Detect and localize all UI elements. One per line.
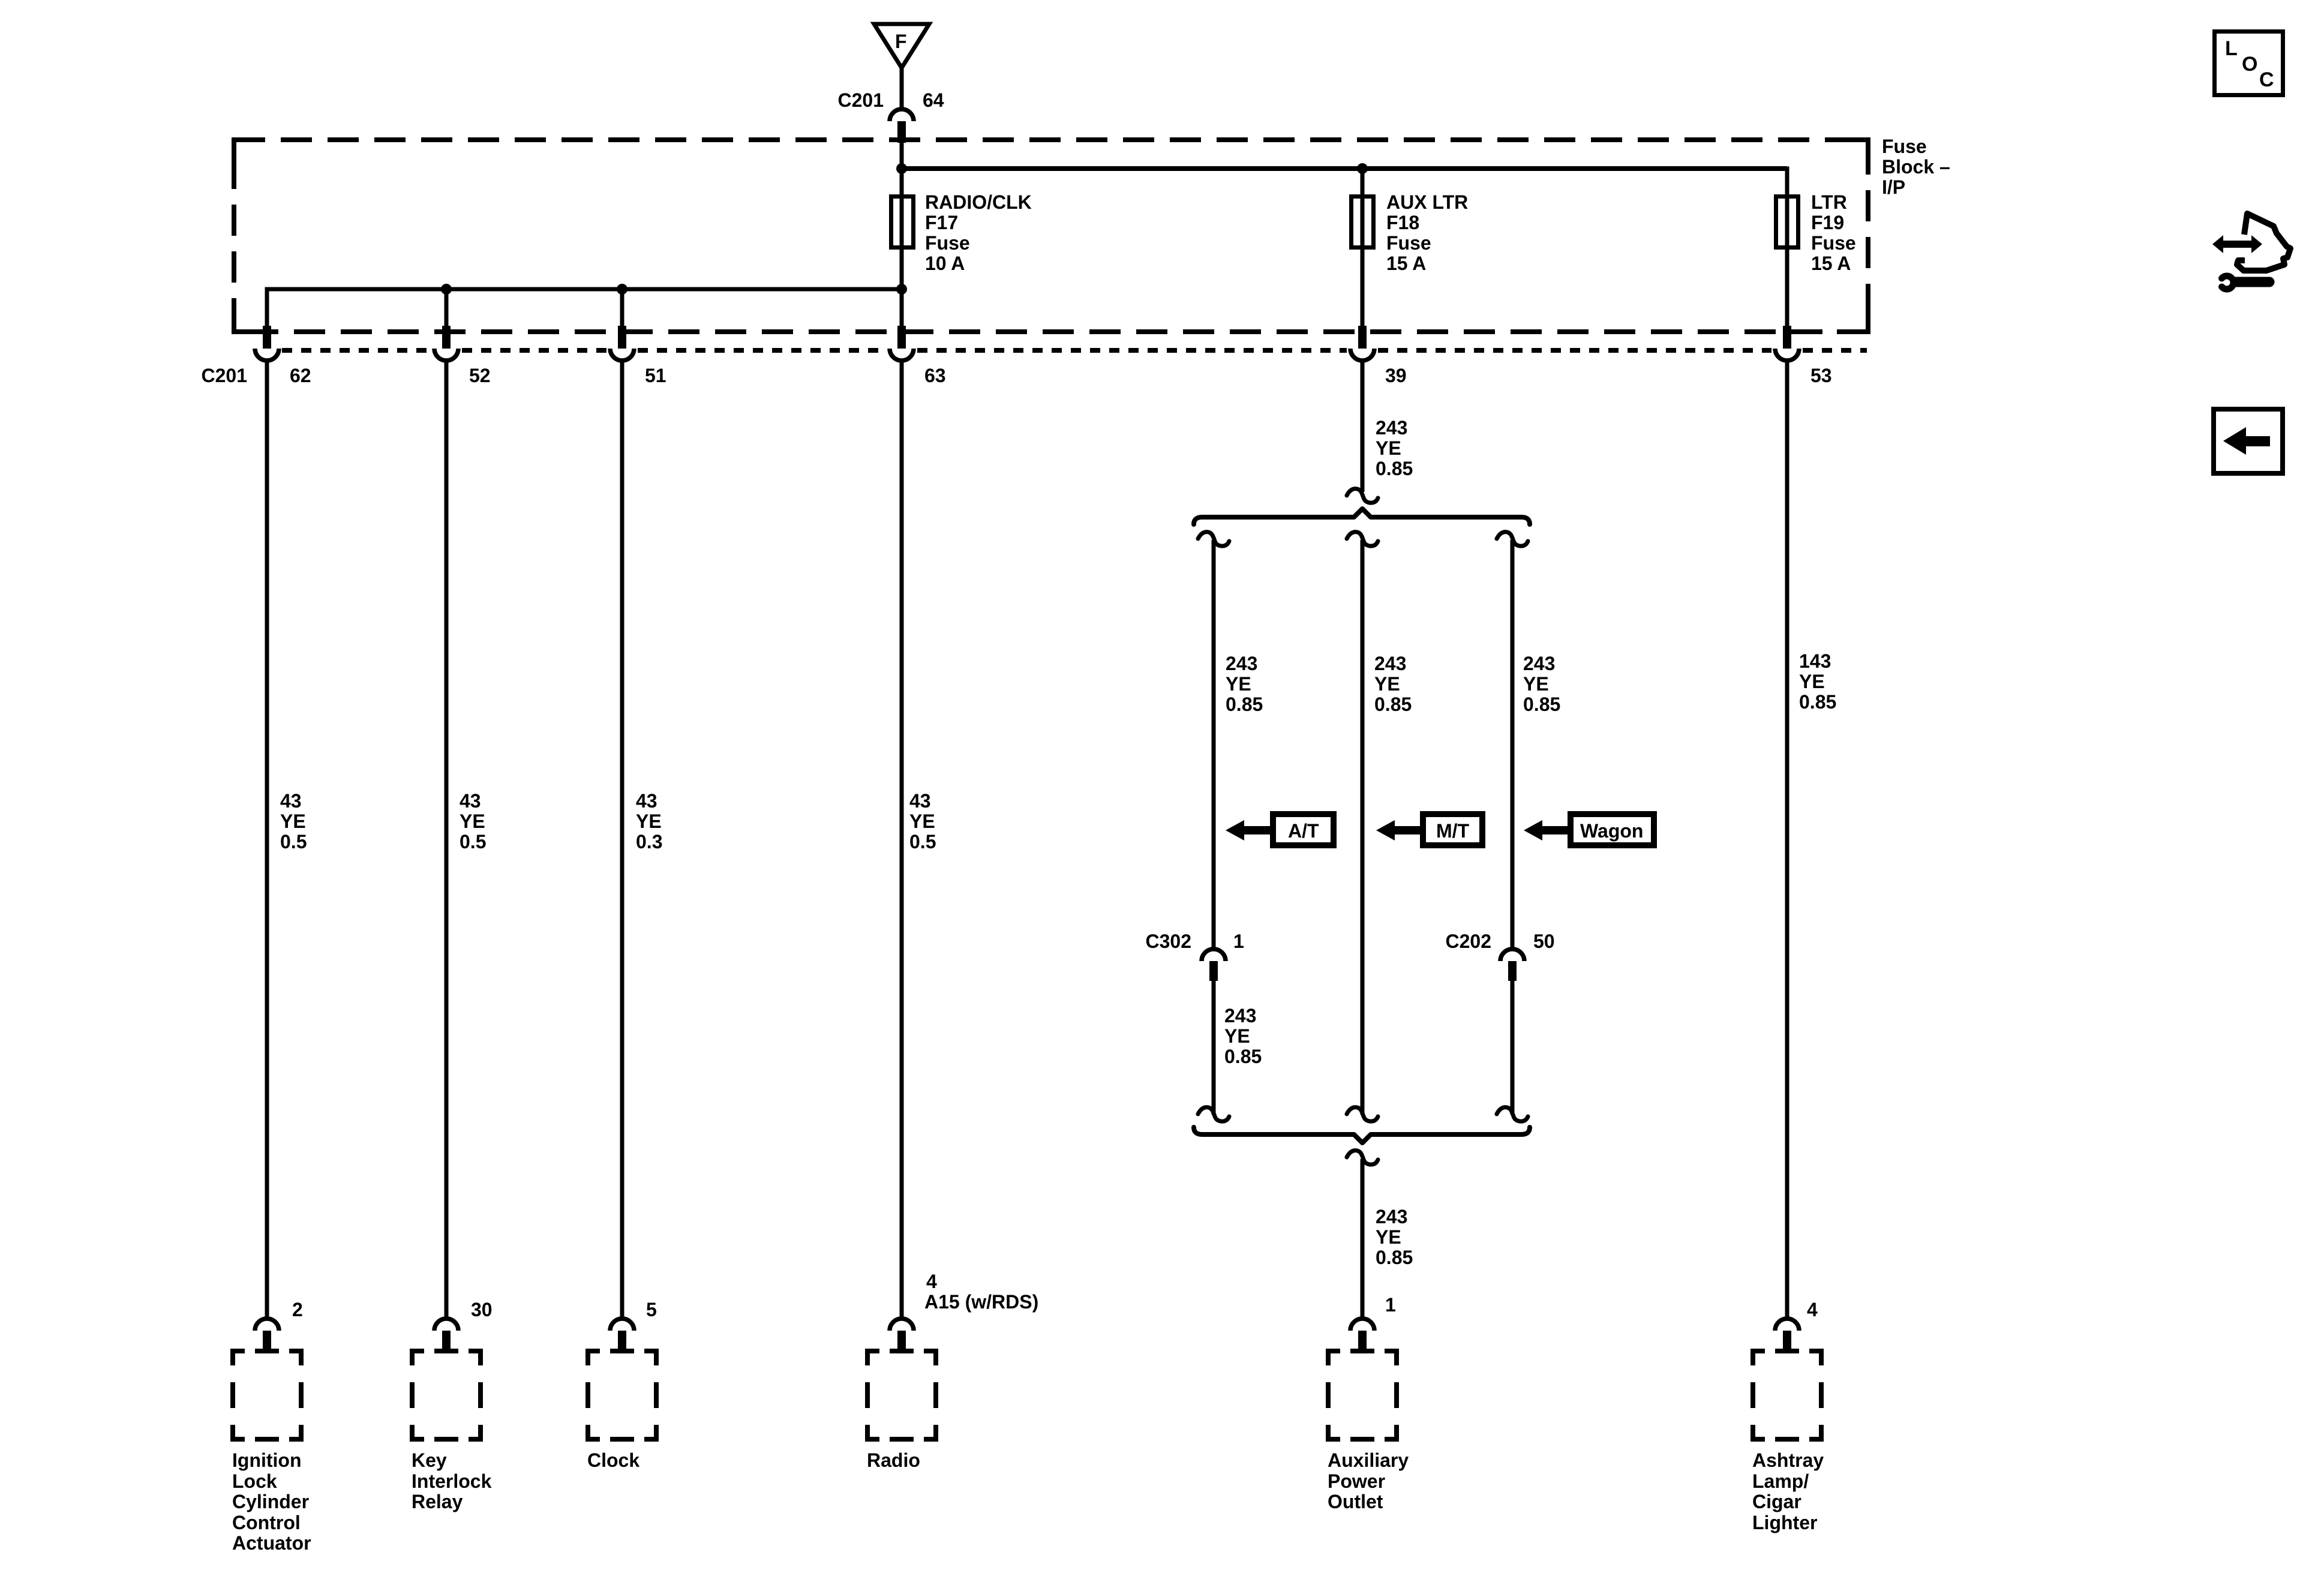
connector pin 4 radio (dome and pin) [890, 1319, 914, 1351]
svg-text:F18: F18 [1386, 212, 1419, 233]
svg-text:62: 62 [290, 365, 311, 386]
svg-text:Cylinder: Cylinder [232, 1491, 309, 1512]
svg-text:15 A: 15 A [1386, 253, 1426, 274]
svg-text:4: 4 [926, 1271, 937, 1292]
svg-text:243: 243 [1376, 417, 1407, 439]
wire break at bottom of M/T branch [1347, 1107, 1378, 1122]
connector pin 1 aux (dome and pin) [1350, 1319, 1374, 1351]
svg-text:Lock: Lock [232, 1470, 277, 1492]
svg-text:43: 43 [909, 790, 931, 812]
svg-text:Ignition: Ignition [232, 1449, 302, 1471]
svg-text:10 A: 10 A [925, 253, 965, 274]
wire: F symbol down to connector C201 pin 64 [900, 66, 904, 109]
svg-text:YE: YE [1799, 671, 1825, 692]
component box: auxiliary power outlet [1326, 1349, 1399, 1442]
connector C201 pin 62 (pin and cup) [255, 326, 279, 361]
wire 243 YE 0.85: C302 down to lower brace [1212, 980, 1216, 1115]
svg-text:Clock: Clock [587, 1449, 639, 1471]
svg-text:Radio: Radio [867, 1449, 920, 1471]
svg-text:YE: YE [280, 810, 306, 832]
connector pin 4 ashtray (dome and pin) [1775, 1319, 1799, 1351]
svg-text:1: 1 [1233, 930, 1244, 952]
wire 43 YE 0.5: pin 52 to key interlock relay [445, 362, 449, 1317]
svg-text:O: O [2242, 53, 2257, 76]
svg-text:0.5: 0.5 [909, 831, 936, 852]
wire 43 YE 0.5: pin 62 to ignition lock actuator [265, 362, 269, 1317]
svg-text:63: 63 [924, 365, 946, 386]
connector C201 pin 53 (pin and cup) [1775, 326, 1799, 361]
junction node at F18 branch [1357, 163, 1368, 174]
svg-text:I/P: I/P [1882, 176, 1905, 198]
svg-text:243: 243 [1523, 653, 1555, 674]
wire: bus corner down to fuse F19 [1785, 169, 1787, 252]
M/T option arrow and tag [1376, 814, 1482, 845]
Wagon option arrow and tag [1524, 814, 1654, 845]
wire break above upper brace [1347, 489, 1378, 503]
svg-text:Lighter: Lighter [1752, 1512, 1817, 1533]
svg-text:F19: F19 [1811, 212, 1844, 233]
wire: pin 64 down to fuse F17 [900, 142, 904, 196]
svg-text:F: F [895, 31, 907, 52]
wire break at bottom of Wagon branch [1497, 1107, 1528, 1122]
wire break at top of A/T branch [1198, 532, 1229, 547]
component box: clock [585, 1349, 659, 1442]
svg-text:Relay: Relay [412, 1491, 463, 1512]
fuse F19 LTR 15 A [1776, 191, 1856, 274]
junction node at pin 51 drop [617, 284, 627, 295]
svg-text:YE: YE [1376, 1226, 1401, 1248]
wire: bus down to fuse F18 [1361, 169, 1365, 252]
component box: radio [865, 1349, 938, 1442]
svg-text:5: 5 [646, 1299, 657, 1320]
svg-text:YE: YE [909, 810, 935, 832]
component box: key interlock relay [410, 1349, 483, 1442]
connector C201 pin 51 (pin and cup) [610, 326, 634, 361]
svg-text:C: C [2259, 68, 2274, 91]
junction node at F17 / bus [896, 163, 907, 174]
wire 243 YE 0.85: pin 39 down to break [1361, 362, 1365, 492]
svg-text:43: 43 [636, 790, 657, 812]
svg-text:52: 52 [469, 365, 491, 386]
wire: Wagon branch down to C202 [1511, 540, 1515, 948]
svg-text:Control: Control [232, 1512, 301, 1533]
svg-text:Outlet: Outlet [1328, 1491, 1383, 1512]
svg-text:YE: YE [1374, 673, 1400, 695]
svg-text:Ashtray: Ashtray [1752, 1449, 1824, 1471]
svg-text:0.85: 0.85 [1376, 458, 1413, 479]
wire: C202 down to lower brace [1511, 980, 1515, 1115]
icon LOC (component location box) [2215, 32, 2283, 95]
svg-text:0.85: 0.85 [1523, 694, 1560, 715]
left bus wire (to pins 62 52 51) [267, 289, 902, 330]
svg-text:51: 51 [645, 365, 666, 386]
svg-text:Fuse: Fuse [1882, 136, 1927, 157]
svg-text:F17: F17 [925, 212, 958, 233]
connector C201 pin 39 (pin and cup) [1350, 326, 1374, 361]
svg-text:Actuator: Actuator [232, 1532, 311, 1554]
connector C302 pin 1 (dome and pin) [1202, 949, 1226, 981]
connector C201 pin 64 (dome and pin) [890, 109, 914, 143]
svg-text:Wagon: Wagon [1580, 820, 1643, 842]
svg-text:4: 4 [1807, 1299, 1818, 1320]
wire 43 YE 0.5: pin 63 to radio [900, 362, 904, 1317]
svg-text:A15 (w/RDS): A15 (w/RDS) [924, 1291, 1038, 1313]
icon adjust (double arrow, outline, wrench) [2212, 214, 2290, 289]
junction node at F17 bottom / pin 63 [896, 284, 907, 295]
wire: left bus down to pin 51 [620, 289, 624, 330]
svg-text:M/T: M/T [1436, 820, 1470, 842]
svg-text:0.85: 0.85 [1376, 1247, 1413, 1268]
svg-text:0.85: 0.85 [1224, 1046, 1262, 1067]
svg-text:LTR: LTR [1811, 191, 1847, 213]
svg-text:Block –: Block – [1882, 156, 1950, 178]
wire: F18 down to pin 39 [1361, 248, 1365, 330]
svg-text:50: 50 [1533, 930, 1555, 952]
brace upper (splice spread) [1194, 509, 1530, 524]
fuse block I/P dashed border [234, 140, 1868, 332]
wire 143 YE 0.85: pin 53 to ashtray lamp [1785, 362, 1789, 1317]
svg-text:Cigar: Cigar [1752, 1491, 1801, 1512]
svg-text:64: 64 [923, 89, 944, 111]
wire: left bus down to pin 52 [445, 289, 449, 330]
svg-text:15 A: 15 A [1811, 253, 1851, 274]
junction node at pin 52 drop [441, 284, 452, 295]
svg-text:30: 30 [471, 1299, 493, 1320]
fuse block border corner pieces [234, 140, 265, 171]
connector pin 30 (dome and pin) [434, 1319, 458, 1351]
wire break at top of Wagon branch [1497, 532, 1528, 547]
wire 43 YE 0.3: pin 51 to clock [620, 362, 624, 1317]
fuse F18 AUX LTR 15 A [1352, 191, 1469, 274]
connector C202 pin 50 (dome and pin) [1500, 949, 1524, 981]
svg-text:Fuse: Fuse [1811, 232, 1856, 254]
icon back arrow box [2214, 409, 2283, 473]
svg-text:243: 243 [1374, 653, 1406, 674]
svg-text:1: 1 [1385, 1294, 1396, 1316]
svg-text:143: 143 [1799, 650, 1831, 672]
fuse F17 RADIO/CLK 10 A [891, 191, 1032, 274]
svg-text:YE: YE [1226, 673, 1251, 695]
connector C201 pin 63 (pin and cup) [890, 326, 914, 361]
svg-text:0.5: 0.5 [460, 831, 486, 852]
svg-text:Fuse: Fuse [1386, 232, 1431, 254]
svg-text:Power: Power [1328, 1470, 1385, 1492]
svg-text:43: 43 [460, 790, 481, 812]
svg-text:0.85: 0.85 [1226, 694, 1263, 715]
wire: F17 down to left bus and pin 63 [900, 248, 904, 330]
svg-text:L: L [2225, 37, 2238, 60]
svg-text:A/T: A/T [1288, 820, 1319, 842]
connector pin 2 (dome and pin) [255, 1319, 279, 1351]
A/T option arrow and tag [1226, 814, 1334, 845]
svg-text:RADIO/CLK: RADIO/CLK [925, 191, 1032, 213]
svg-text:C202: C202 [1446, 930, 1492, 952]
svg-text:43: 43 [280, 790, 302, 812]
svg-text:53: 53 [1810, 365, 1832, 386]
svg-text:0.85: 0.85 [1374, 694, 1412, 715]
svg-text:YE: YE [1224, 1025, 1250, 1047]
svg-text:C201: C201 [202, 365, 248, 386]
svg-text:0.3: 0.3 [636, 831, 662, 852]
svg-text:Lamp/: Lamp/ [1752, 1470, 1809, 1492]
svg-text:YE: YE [636, 810, 662, 832]
component box: ashtray lamp / cigar lighter [1750, 1349, 1824, 1442]
svg-text:YE: YE [1523, 673, 1549, 695]
svg-text:YE: YE [1376, 437, 1401, 459]
power feed symbol F (fused feed triangle) [874, 24, 929, 68]
svg-text:Auxiliary: Auxiliary [1328, 1449, 1409, 1471]
svg-text:0.5: 0.5 [280, 831, 307, 852]
svg-text:0.85: 0.85 [1799, 691, 1836, 713]
wire: M/T branch down to lower brace [1361, 540, 1365, 1115]
wire: A/T branch down to C302 [1212, 540, 1216, 948]
svg-text:243: 243 [1224, 1005, 1256, 1026]
svg-text:AUX LTR: AUX LTR [1386, 191, 1468, 213]
connector pin 5 (dome and pin) [610, 1319, 634, 1351]
svg-text:243: 243 [1226, 653, 1257, 674]
wire break at bottom of A/T branch [1198, 1107, 1229, 1122]
svg-text:243: 243 [1376, 1206, 1407, 1227]
svg-text:Key: Key [412, 1449, 447, 1471]
svg-text:C302: C302 [1146, 930, 1192, 952]
component box: ignition lock cylinder control actuator [230, 1349, 304, 1442]
svg-text:39: 39 [1385, 365, 1407, 386]
wire break below lower brace [1347, 1151, 1378, 1165]
connector C201 pin 52 (pin and cup) [434, 326, 458, 361]
svg-text:Fuse: Fuse [925, 232, 970, 254]
svg-text:YE: YE [460, 810, 485, 832]
svg-text:Interlock: Interlock [412, 1470, 492, 1492]
bus wire from F17 across to F19 [902, 166, 1787, 171]
wire: F19 down to pin 53 [1785, 248, 1789, 330]
wire break at top of M/T branch [1347, 532, 1378, 547]
svg-text:C201: C201 [838, 89, 884, 111]
connector C201 dotted row line [282, 348, 431, 353]
svg-text:2: 2 [292, 1299, 303, 1320]
brace lower (splice merge) [1194, 1127, 1530, 1143]
wire 243 YE 0.85: brace down to auxiliary power outlet [1361, 1159, 1365, 1317]
